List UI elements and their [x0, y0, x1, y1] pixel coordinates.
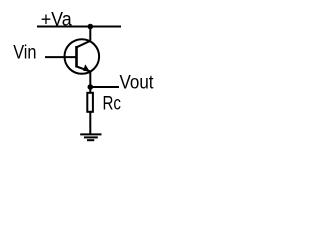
svg-text:Vin: Vin	[13, 41, 36, 63]
svg-text:Rc: Rc	[103, 93, 122, 115]
svg-text:Vout: Vout	[120, 71, 154, 93]
svg-text:+Va: +Va	[41, 8, 72, 30]
